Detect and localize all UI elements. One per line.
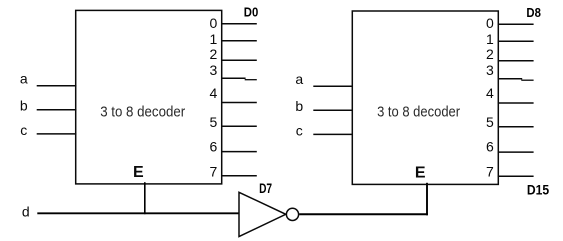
svg-text:d: d: [22, 204, 30, 220]
svg-text:a: a: [295, 71, 303, 87]
wire U1 output 7: [221, 175, 257, 177]
svg-text:E: E: [133, 164, 144, 181]
wire U1 output 5: [221, 125, 257, 127]
wire U1 output 3 (two offset segments): [221, 77, 245, 79]
inverter U3 triangle: [239, 192, 286, 236]
wire U1 output 6: [221, 151, 257, 153]
svg-text:2: 2: [486, 46, 494, 62]
svg-text:D8: D8: [526, 5, 541, 20]
svg-text:5: 5: [210, 114, 218, 130]
wire U1 output 2: [221, 59, 257, 61]
wire d bus: [37, 212, 239, 214]
svg-text:D0: D0: [244, 5, 258, 20]
wire input c to U1: [37, 133, 77, 135]
svg-text:0: 0: [210, 15, 218, 31]
wire U1 output 0: [221, 23, 257, 25]
svg-text:5: 5: [486, 114, 494, 130]
decoder U2 box: [352, 11, 498, 184]
svg-text:a: a: [20, 71, 28, 87]
svg-text:7: 7: [486, 163, 494, 179]
svg-text:c: c: [296, 122, 303, 138]
svg-text:b: b: [295, 98, 303, 114]
wire U2 output 4: [498, 102, 534, 104]
wire U2 output 0: [498, 23, 534, 25]
svg-text:c: c: [20, 122, 27, 138]
svg-text:1: 1: [486, 31, 494, 47]
svg-text:7: 7: [210, 163, 218, 179]
svg-text:4: 4: [210, 85, 218, 101]
inverter U3 output bubble: [286, 208, 298, 220]
wire U2 output 2: [498, 60, 534, 62]
wire U1 output 4: [221, 102, 257, 104]
svg-text:2: 2: [210, 46, 218, 62]
wire U2 output 6: [498, 151, 534, 153]
svg-text:4: 4: [486, 85, 494, 101]
wire input a to U1: [37, 85, 77, 87]
svg-text:3: 3: [486, 62, 494, 78]
svg-text:3 to 8 decoder: 3 to 8 decoder: [377, 103, 460, 120]
wire input c to U2: [313, 133, 353, 135]
wire U2 output 7: [498, 175, 534, 177]
wire input a to U2: [313, 85, 353, 87]
wire U2 output 3 (two offset segments): [498, 78, 522, 80]
wire U2 output 5: [498, 126, 534, 128]
wire U2 output 1: [498, 40, 534, 42]
svg-text:D7: D7: [259, 180, 272, 196]
wire input b to U2: [313, 109, 353, 111]
wire U1 enable stub (junction with d): [144, 182, 146, 214]
wire input b to U1: [37, 109, 77, 111]
svg-text:1: 1: [210, 31, 218, 47]
wire inverter output to U2 enable: [299, 213, 428, 215]
wire U2 enable stub: [426, 183, 428, 216]
svg-text:3: 3: [210, 62, 218, 78]
svg-text:6: 6: [210, 139, 218, 155]
svg-text:b: b: [20, 97, 28, 113]
svg-text:3 to 8 decoder: 3 to 8 decoder: [100, 103, 185, 120]
svg-text:E: E: [415, 164, 426, 181]
svg-text:6: 6: [486, 139, 494, 155]
svg-text:D15: D15: [527, 183, 550, 198]
svg-text:0: 0: [486, 15, 494, 31]
wire U1 output 1: [221, 40, 257, 42]
decoder U1 box: [76, 10, 222, 184]
